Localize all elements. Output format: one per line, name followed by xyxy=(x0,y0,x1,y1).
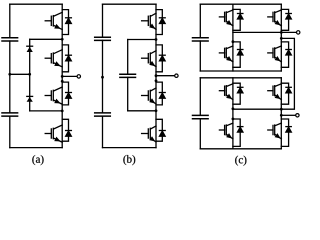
wire: (a) top DC rail xyxy=(10,3,62,5)
wire: (c) module2 left leg xyxy=(232,78,234,149)
wire: (b) switch column xyxy=(155,4,157,147)
wire: (c) module1 right leg xyxy=(280,4,282,71)
wire: (c) module1 bottom rail xyxy=(200,70,281,72)
wire: (c) module2 left rail xyxy=(199,78,201,149)
terminal: (b) AC output xyxy=(175,74,178,77)
clamp diode D6 (a) xyxy=(27,96,33,101)
transistor T1 (a) with diode xyxy=(45,10,71,35)
terminal: (c) phase output xyxy=(297,31,300,34)
capacitor C2 (a) lower DC-link xyxy=(2,113,18,116)
terminal: (c) neutral output xyxy=(296,114,299,117)
wire: (b) flying-cap top link xyxy=(128,39,156,41)
wire: (a) clamp diode column xyxy=(29,39,31,111)
junction: (a) neutral on rail xyxy=(8,73,11,76)
junction: (b) T1-T2 node xyxy=(155,38,158,41)
wire: (a) neutral tap xyxy=(10,73,30,75)
wire: (a) bottom DC rail xyxy=(10,147,62,149)
wire: (c) phase output lead xyxy=(281,31,296,33)
wire: (b) output lead xyxy=(156,75,175,77)
wire: (b) left DC-link rail xyxy=(102,4,104,147)
junction: (a) neutral at clamp column xyxy=(28,73,31,76)
junction: (a) T3-T4 node xyxy=(61,110,64,113)
label (c) xyxy=(235,156,246,166)
transistor S1 (c) m1 left-top xyxy=(219,9,243,30)
transistor T1 (b) with diode xyxy=(142,10,166,35)
transistor T2 (a) with diode xyxy=(45,45,71,72)
transistor T3 (b) with diode xyxy=(142,82,166,105)
wire: (c) module1 midpoint link xyxy=(233,31,281,33)
transistor S6 (c) m2 left-bottom xyxy=(219,119,243,146)
wire: (b) flying-cap bottom link xyxy=(128,110,156,112)
junction: (c) m2 left leg lower node xyxy=(232,118,235,121)
wire: (a) switch column xyxy=(61,4,63,147)
wire: (c) module2 top rail xyxy=(200,77,281,79)
junction: (a) node below output xyxy=(61,80,64,83)
junction: (c) m1 right leg output node xyxy=(280,31,283,34)
transistor T3 (a) with diode xyxy=(45,82,71,105)
junction: (b) DC-link midpoint xyxy=(101,76,104,79)
transistor S4 (c) m1 right-bottom xyxy=(268,42,292,67)
wire: (c) module1 top rail xyxy=(200,3,281,5)
junction: (c) m2 right leg cascade node xyxy=(280,108,283,111)
wire: (c) module1 left leg xyxy=(232,4,234,71)
transistor S3 (c) m1 right-top xyxy=(268,9,292,30)
transistor S8 (c) m2 right-bottom xyxy=(268,119,292,146)
wire: (c) cascade link m1-m2 xyxy=(281,38,294,109)
wire: (a) junction T3-T4 to clamp xyxy=(30,110,63,112)
wire: (b) flying-cap branch xyxy=(127,40,129,111)
junction: (c) m1 left leg node xyxy=(232,40,235,43)
junction: (c) m2 left leg node xyxy=(232,107,235,110)
capacitor (c) module2 DC xyxy=(193,115,209,118)
transistor S2 (c) m1 left-bottom xyxy=(219,42,243,67)
clamp diode D5 (a) xyxy=(27,46,33,52)
wire: (a) junction T1-T2 to clamp xyxy=(30,38,63,40)
transistor S7 (c) m2 right-top xyxy=(268,83,292,104)
junction: (b) T3-T4 node xyxy=(155,109,158,112)
capacitor C1 (a) upper DC-link xyxy=(2,38,18,41)
junction: (c) m1 right leg cascade node xyxy=(280,37,283,40)
wire: (a) left DC-link rail xyxy=(9,4,11,147)
junction: (b) output node xyxy=(155,74,158,77)
capacitor C3 (b) flying xyxy=(120,74,136,77)
transistor T2 (b) with diode xyxy=(142,45,166,72)
transistor T4 (b) with diode xyxy=(142,119,166,142)
junction: (a) T1-T2 node xyxy=(61,38,64,41)
wire: (c) module2 bottom rail xyxy=(200,148,281,150)
junction: (c) m2 right leg output node xyxy=(280,114,283,117)
wire: (b) bottom DC rail xyxy=(103,147,157,149)
transistor S5 (c) m2 left-top xyxy=(219,83,243,104)
junction: (a) output node xyxy=(61,75,64,78)
label (b) xyxy=(123,155,135,165)
capacitor (c) module1 DC xyxy=(193,38,209,41)
wire: (c) neutral output lead xyxy=(281,114,295,116)
junction: (b) node below output xyxy=(155,79,158,82)
label (a) xyxy=(32,155,43,165)
capacitor C1 (b) upper DC-link xyxy=(95,37,111,40)
transistor T4 (a) with diode xyxy=(45,119,71,142)
wire: (a) output lead xyxy=(62,75,77,77)
wire: (c) module2 midpoint link xyxy=(233,108,281,110)
capacitor C2 (b) lower DC-link xyxy=(95,113,111,116)
terminal: (a) AC output xyxy=(77,75,80,78)
wire: (b) top DC rail xyxy=(103,3,157,5)
wire: (c) module1 left rail xyxy=(199,4,201,71)
wire: (c) module2 right leg xyxy=(280,78,282,149)
